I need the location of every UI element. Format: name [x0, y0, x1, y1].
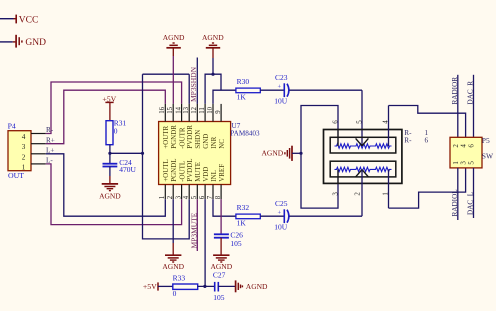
svg-text:9: 9	[215, 110, 222, 114]
pin 5 stub	[196, 185, 198, 200]
wire P5 pin1 RADIOL	[457, 168, 459, 220]
svg-text:13: 13	[183, 106, 190, 113]
svg-text:OUT: OUT	[8, 171, 24, 180]
svg-text:INL: INL	[210, 170, 218, 182]
wire R30 to C23	[260, 89, 284, 91]
wire L+ net	[46, 154, 166, 216]
wire R31 bottom	[109, 145, 111, 154]
wire INL to R32	[213, 199, 236, 216]
connector P4 body	[8, 131, 31, 171]
svg-text:2: 2	[353, 192, 361, 196]
wire AGND rail to pot pin3	[301, 153, 338, 208]
capacitor C25	[283, 209, 285, 223]
svg-text:470U: 470U	[119, 165, 136, 174]
wire C24 to AGND	[109, 167, 111, 177]
resistor R32 body	[236, 214, 260, 219]
svg-text:AGND: AGND	[162, 262, 184, 271]
wire +5V rail to PVDDL	[143, 74, 190, 239]
wire +5V to R33	[158, 285, 173, 287]
op-amp U7 PAM8403 body	[159, 122, 231, 185]
wire +5V net row	[110, 152, 143, 154]
P4 pin stub	[31, 153, 46, 155]
wire C27 to AGND	[218, 285, 235, 287]
wire R32 to C25	[260, 215, 284, 217]
capacitor C27	[214, 282, 216, 292]
potentiometer outer body	[324, 130, 402, 184]
wire pot pin4 to P5 pin4	[389, 106, 466, 138]
svg-text:DAC_R: DAC_R	[467, 81, 475, 105]
junction AGND rail	[299, 152, 302, 155]
svg-text:6: 6	[199, 195, 206, 199]
svg-text:PVDDR: PVDDR	[186, 125, 194, 149]
svg-text:GND: GND	[202, 134, 210, 149]
junction VDD / R33 / C27	[203, 285, 206, 288]
svg-text:P5: P5	[482, 136, 490, 145]
svg-text:RADIOL: RADIOL	[451, 189, 459, 216]
svg-text:+: +	[278, 210, 282, 217]
svg-text:R30: R30	[237, 77, 250, 86]
pot upper element box	[330, 137, 396, 153]
svg-text:VDD: VDD	[202, 167, 210, 182]
svg-text:SHDN: SHDN	[194, 130, 202, 149]
resistor R33 body	[173, 284, 198, 289]
svg-text:INR: INR	[210, 136, 218, 148]
svg-text:1: 1	[381, 192, 389, 196]
pot pin 4 wire	[388, 106, 390, 147]
pot lower resistive element	[335, 167, 392, 171]
pin 14 stub	[181, 104, 183, 122]
svg-text:14: 14	[175, 106, 182, 113]
svg-text:2: 2	[167, 195, 174, 199]
svg-text:VREF: VREF	[218, 164, 226, 182]
pin 11 stub	[204, 104, 206, 122]
svg-text:8: 8	[215, 195, 222, 199]
svg-text:C26: C26	[230, 230, 243, 239]
wire R33 to C27	[198, 285, 215, 287]
svg-text:C25: C25	[275, 199, 288, 208]
svg-text:3: 3	[175, 195, 182, 199]
svg-text:12: 12	[191, 106, 198, 113]
svg-text:R32: R32	[237, 203, 250, 212]
wire RADIOR to P5 pin2	[457, 75, 459, 138]
connector P5 body	[450, 137, 482, 168]
svg-text:MP3MUTE: MP3MUTE	[189, 212, 198, 248]
pot pin 6 stub	[337, 130, 339, 147]
svg-text:10U: 10U	[274, 96, 288, 105]
svg-text:RADIOR: RADIOR	[451, 77, 459, 105]
svg-text:+OUTL: +OUTL	[162, 159, 170, 182]
svg-text:PGNDR: PGNDR	[170, 125, 178, 149]
svg-text:AGND: AGND	[262, 148, 284, 157]
svg-text:2: 2	[22, 153, 26, 161]
svg-text:3: 3	[460, 161, 468, 165]
wire R+ net	[46, 90, 166, 144]
svg-text:0: 0	[114, 127, 118, 136]
wire P5 pin5 DAC_L	[473, 168, 475, 218]
wire VCC stub	[0, 18, 14, 20]
P4 pin stub	[31, 133, 46, 135]
pot pin 2 wire	[361, 170, 363, 217]
pot lower wiper arrow	[356, 170, 362, 177]
svg-text:10: 10	[207, 106, 214, 113]
svg-text:1K: 1K	[237, 93, 247, 102]
resistor R31 body	[106, 121, 113, 145]
svg-text:AGND: AGND	[246, 282, 268, 291]
pin 8 stub	[220, 185, 222, 200]
wire C25 to pot pin2	[289, 215, 362, 217]
svg-text:0: 0	[173, 289, 177, 298]
wire GND stub	[0, 41, 13, 43]
pin 13 stub	[188, 104, 190, 122]
capacitor C26	[214, 233, 229, 235]
svg-text:C27: C27	[213, 271, 226, 280]
svg-text:VCC: VCC	[19, 15, 39, 25]
svg-text:4: 4	[183, 195, 190, 199]
wire to pin11 GND	[205, 74, 213, 104]
pin 7 stub	[212, 185, 214, 200]
wire PGNDL to AGND	[172, 199, 174, 243]
pin 9 stub	[220, 104, 222, 122]
ground GND symbol	[13, 41, 16, 43]
pin 15 stub	[172, 104, 174, 122]
wire C23 to pot wiper	[289, 89, 362, 91]
wire AGND to PGNDR	[172, 56, 174, 104]
ground AGND bottom (sideways)	[235, 280, 237, 292]
pin 2 stub	[172, 185, 174, 200]
wire pot pin1 to P5 pin3	[389, 168, 466, 208]
svg-text:DAC_L: DAC_L	[467, 192, 475, 215]
wire to C24	[109, 153, 111, 163]
svg-text:R33: R33	[173, 274, 186, 283]
wire MP3SHDN stub	[196, 58, 198, 104]
svg-text:16: 16	[159, 106, 166, 113]
wire AGND to rail	[292, 152, 301, 154]
ground AGND (C26)	[213, 254, 229, 256]
svg-text:4: 4	[381, 120, 389, 124]
wire MP3MUTE stub	[196, 199, 198, 251]
svg-text:+OUTR: +OUTR	[162, 125, 170, 148]
wire AGND stem right	[212, 48, 214, 58]
svg-text:105: 105	[230, 239, 242, 248]
wire AGND to GND-net dot	[212, 58, 214, 74]
wire AGND stem	[172, 48, 174, 56]
pot lower element box	[330, 161, 396, 177]
junction +5V column	[141, 152, 144, 155]
svg-text:R-: R-	[404, 136, 412, 144]
pot pin 3 stub	[337, 169, 339, 183]
svg-text:105: 105	[213, 293, 225, 302]
wire AGND rail to pot pin6	[301, 106, 338, 154]
svg-text:4: 4	[22, 133, 26, 141]
svg-text:SW: SW	[482, 152, 494, 161]
svg-text:AGND: AGND	[163, 33, 185, 42]
junction R31/C24	[108, 152, 111, 155]
svg-text:PVDDL: PVDDL	[186, 158, 194, 181]
svg-text:1K: 1K	[237, 219, 247, 228]
pin 6 stub	[204, 185, 206, 200]
pot upper wiper arrow	[356, 138, 362, 145]
wire C26 to AGND	[220, 238, 222, 255]
pot upper resistive element	[335, 144, 392, 148]
svg-text:1: 1	[22, 163, 26, 171]
pin 4 stub	[188, 185, 190, 200]
wire R- net	[46, 82, 182, 134]
pin 12 stub	[196, 104, 198, 122]
svg-text:5: 5	[191, 195, 198, 199]
wire INR to R30	[213, 90, 236, 104]
svg-text:P4: P4	[8, 122, 16, 131]
svg-text:10U: 10U	[274, 222, 288, 231]
svg-text:5: 5	[355, 120, 363, 124]
svg-text:AGND: AGND	[202, 33, 224, 42]
wire VDD to +5V rail	[204, 199, 206, 286]
P4 pin stub	[31, 163, 46, 165]
svg-text:PAM8403: PAM8403	[230, 129, 260, 137]
resistor R30 body	[236, 88, 260, 93]
wire VREF to C26	[220, 199, 222, 234]
ground AGND (C24)	[102, 183, 118, 185]
svg-text:6: 6	[331, 120, 339, 124]
svg-text:MUTE: MUTE	[194, 162, 202, 182]
capacitor C24	[103, 163, 118, 165]
VCC power port symbol	[14, 18, 16, 20]
svg-text:1: 1	[452, 161, 460, 165]
svg-text:C23: C23	[275, 73, 288, 82]
svg-text:+: +	[278, 84, 282, 91]
svg-text:6: 6	[425, 136, 429, 144]
pin 10 stub	[212, 104, 214, 122]
pot pin 1 wire	[388, 169, 390, 208]
svg-text:PGNDL: PGNDL	[170, 158, 178, 181]
svg-text:11: 11	[199, 107, 206, 114]
ground AGND (PGNDL)	[165, 254, 181, 256]
P4 pin stub	[31, 143, 46, 145]
svg-text:3: 3	[331, 192, 339, 196]
wire L- net	[46, 164, 182, 225]
svg-text:NC: NC	[218, 139, 226, 149]
svg-text:7: 7	[207, 195, 214, 199]
svg-text:4: 4	[460, 144, 468, 148]
svg-text:6: 6	[468, 144, 476, 148]
junction AGND net	[211, 73, 214, 76]
wire into pot pin5	[361, 90, 363, 146]
pin 16 stub	[164, 104, 166, 122]
svg-text:15: 15	[167, 106, 174, 113]
wire +5V to R31	[109, 102, 111, 120]
svg-text:2: 2	[452, 144, 460, 148]
pin 1 stub	[164, 185, 166, 200]
svg-text:1: 1	[159, 196, 166, 199]
svg-text:MP3SHDN: MP3SHDN	[189, 66, 198, 102]
svg-text:AGND: AGND	[99, 191, 121, 200]
wire +5V to PVDDR	[143, 73, 190, 75]
wire DAC_R to P5 pin6	[473, 75, 475, 138]
capacitor C23	[283, 83, 285, 97]
svg-text:3: 3	[22, 143, 26, 151]
pin 3 stub	[181, 185, 183, 200]
wire jog to INR row	[213, 74, 221, 90]
svg-text:+5V: +5V	[143, 282, 157, 291]
svg-text:GND: GND	[25, 38, 46, 48]
svg-text:5: 5	[468, 161, 476, 165]
